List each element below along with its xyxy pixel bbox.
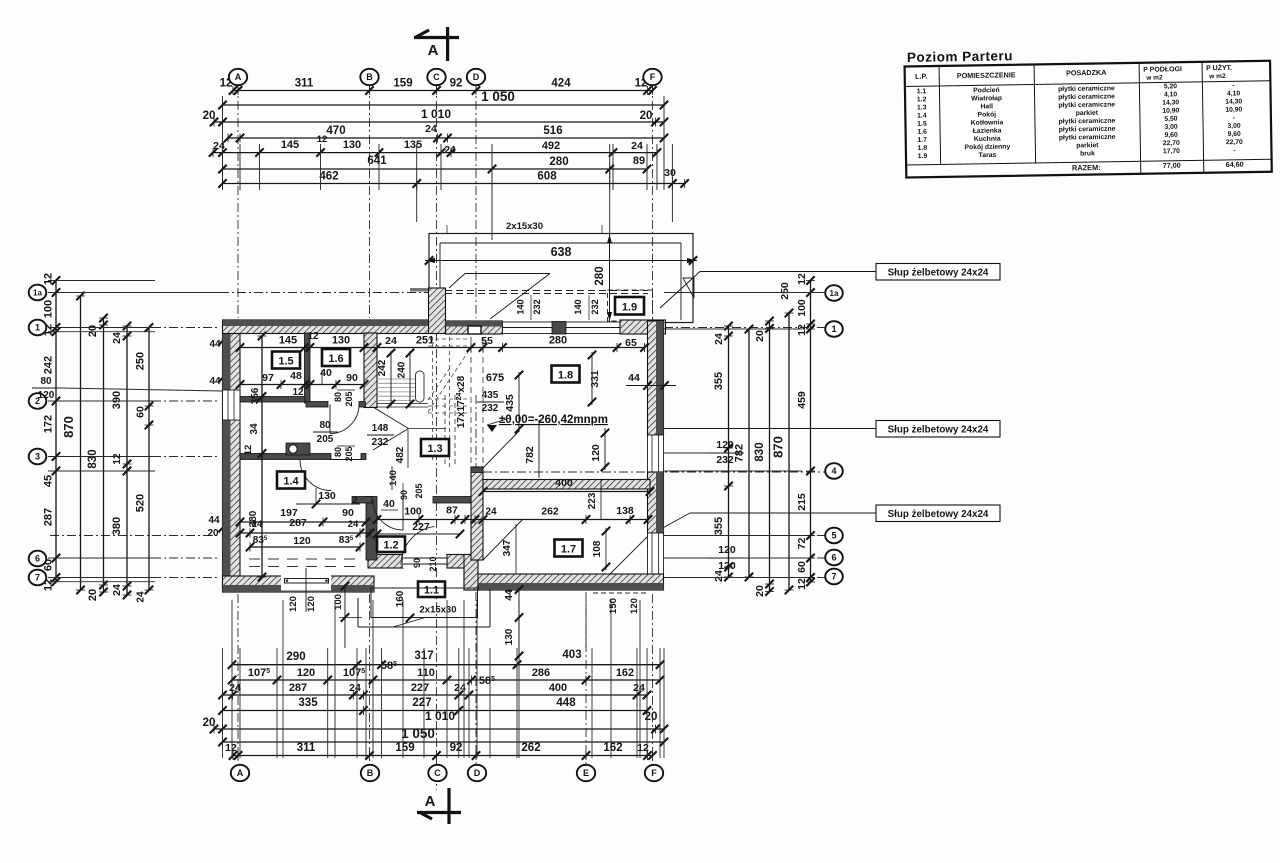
window mullion pier bbox=[552, 322, 566, 335]
svg-text:24: 24 bbox=[136, 591, 147, 603]
svg-text:24: 24 bbox=[633, 682, 645, 694]
svg-text:355: 355 bbox=[713, 517, 725, 535]
partition stub 1.6 bottom bbox=[306, 402, 328, 408]
svg-text:płytki ceramiczne: płytki ceramiczne bbox=[1059, 118, 1116, 126]
svg-text:335: 335 bbox=[298, 697, 318, 709]
svg-text:40: 40 bbox=[383, 498, 395, 510]
svg-text:A: A bbox=[237, 768, 244, 778]
svg-text:12: 12 bbox=[292, 387, 304, 398]
svg-text:110: 110 bbox=[417, 667, 435, 679]
callout: Slup zelbetowy 24x24 (top) bbox=[876, 264, 1000, 281]
svg-text:120: 120 bbox=[590, 444, 602, 462]
svg-text:C: C bbox=[433, 72, 440, 82]
exterior wall: top (middle) bbox=[446, 321, 503, 334]
svg-text:435: 435 bbox=[504, 394, 516, 412]
svg-text:60: 60 bbox=[135, 406, 147, 418]
svg-text:24: 24 bbox=[349, 682, 361, 694]
svg-text:92: 92 bbox=[450, 742, 463, 754]
svg-text:120: 120 bbox=[629, 598, 640, 614]
left dimension chains bbox=[55, 281, 57, 582]
svg-text:232: 232 bbox=[482, 403, 499, 414]
svg-text:675: 675 bbox=[486, 372, 504, 384]
svg-text:D: D bbox=[474, 768, 481, 778]
svg-text:płytki ceramiczne: płytki ceramiczne bbox=[1058, 93, 1115, 101]
svg-text:120: 120 bbox=[293, 535, 311, 547]
chimney bbox=[429, 288, 446, 334]
svg-text:1.1: 1.1 bbox=[424, 585, 439, 597]
svg-text:F: F bbox=[651, 768, 657, 778]
svg-text:POMIESZCZENIE: POMIESZCZENIE bbox=[957, 70, 1016, 80]
svg-text:72: 72 bbox=[796, 538, 808, 550]
svg-text:24: 24 bbox=[444, 145, 456, 156]
svg-text:608: 608 bbox=[537, 171, 557, 183]
opening V marks hall bbox=[373, 407, 409, 429]
svg-text:Taras: Taras bbox=[979, 152, 997, 159]
svg-text:1.8: 1.8 bbox=[918, 145, 928, 152]
svg-text:17,70: 17,70 bbox=[1163, 148, 1180, 155]
svg-text:20: 20 bbox=[645, 711, 658, 723]
svg-text:90: 90 bbox=[342, 507, 354, 519]
svg-text:65: 65 bbox=[625, 337, 637, 349]
svg-text:205: 205 bbox=[317, 434, 334, 445]
svg-text:24: 24 bbox=[111, 332, 123, 344]
terrace ramp diagonal bbox=[449, 274, 465, 289]
svg-text:4: 4 bbox=[831, 466, 836, 476]
svg-text:3,00: 3,00 bbox=[1227, 123, 1241, 130]
svg-text:34: 34 bbox=[249, 423, 260, 435]
svg-text:12: 12 bbox=[112, 453, 123, 465]
svg-text:520: 520 bbox=[135, 494, 147, 512]
level mark bbox=[487, 425, 497, 432]
door leaf into 1.8 bbox=[483, 431, 519, 468]
room label 1.3 bbox=[421, 439, 449, 456]
svg-text:17x1724x28: 17x1724x28 bbox=[456, 375, 467, 428]
section marker A (bottom) bbox=[447, 788, 450, 824]
boiler block bbox=[286, 443, 310, 455]
exterior wall: bottom right section bbox=[464, 574, 664, 590]
svg-text:400: 400 bbox=[555, 477, 573, 489]
svg-text:516: 516 bbox=[543, 125, 562, 137]
svg-text:14,30: 14,30 bbox=[1162, 99, 1179, 106]
svg-text:24: 24 bbox=[713, 333, 725, 345]
svg-text:Słup żelbetowy 24x24: Słup żelbetowy 24x24 bbox=[888, 509, 989, 520]
svg-text:6: 6 bbox=[35, 554, 40, 564]
exterior wall: right, segment 1 bbox=[648, 321, 664, 435]
right dimension chains bbox=[728, 326, 730, 577]
svg-text:80: 80 bbox=[319, 420, 331, 431]
svg-text:138: 138 bbox=[616, 505, 634, 517]
svg-text:1.6: 1.6 bbox=[328, 353, 343, 365]
svg-text:1.3: 1.3 bbox=[917, 104, 927, 111]
svg-text:64,60: 64,60 bbox=[1226, 160, 1244, 169]
svg-text:24: 24 bbox=[213, 140, 225, 152]
svg-text:30: 30 bbox=[664, 167, 676, 179]
svg-text:97: 97 bbox=[262, 372, 274, 384]
svg-text:20: 20 bbox=[87, 325, 99, 337]
svg-text:280: 280 bbox=[549, 156, 568, 168]
svg-text:20: 20 bbox=[754, 585, 766, 597]
svg-text:płytki ceramiczne: płytki ceramiczne bbox=[1058, 101, 1115, 109]
svg-text:120: 120 bbox=[297, 667, 315, 679]
svg-text:1.4: 1.4 bbox=[283, 476, 299, 488]
svg-text:250: 250 bbox=[779, 282, 791, 300]
top grid bubbles A B C D F bbox=[229, 69, 247, 85]
svg-text:20: 20 bbox=[207, 528, 219, 539]
svg-text:145: 145 bbox=[281, 139, 299, 151]
svg-text:9,60: 9,60 bbox=[1228, 131, 1242, 138]
terrace drain triangle bbox=[683, 278, 694, 298]
svg-text:403: 403 bbox=[562, 649, 581, 661]
svg-text:w m2: w m2 bbox=[1145, 74, 1163, 81]
svg-text:12: 12 bbox=[796, 273, 808, 285]
svg-text:262: 262 bbox=[521, 742, 540, 754]
svg-text:5,20: 5,20 bbox=[1164, 83, 1178, 90]
svg-text:-: - bbox=[1233, 147, 1235, 154]
svg-text:parkiet: parkiet bbox=[1076, 142, 1099, 149]
svg-text:20: 20 bbox=[203, 717, 216, 729]
svg-text:A: A bbox=[425, 793, 436, 810]
svg-text:120: 120 bbox=[288, 596, 299, 612]
room label 1.9 bbox=[608, 290, 653, 321]
svg-text:150: 150 bbox=[608, 598, 619, 614]
room label 1.4 bbox=[277, 472, 305, 489]
svg-text:22,70: 22,70 bbox=[1226, 139, 1243, 146]
svg-text:płytki ceramiczne: płytki ceramiczne bbox=[1059, 126, 1116, 134]
right wall window 120/232 bbox=[648, 435, 664, 472]
wall 1.8/1.7 bbox=[483, 480, 650, 490]
svg-text:RAZEM:: RAZEM: bbox=[1072, 163, 1101, 172]
svg-text:4,10: 4,10 bbox=[1227, 90, 1241, 97]
svg-text:120: 120 bbox=[716, 439, 734, 451]
svg-text:638: 638 bbox=[551, 245, 572, 259]
svg-text:108: 108 bbox=[592, 540, 603, 557]
svg-text:205: 205 bbox=[344, 391, 354, 406]
entry door opening bbox=[403, 555, 447, 569]
svg-text:262: 262 bbox=[541, 506, 559, 518]
svg-text:1.1: 1.1 bbox=[917, 88, 927, 95]
svg-text:1.7: 1.7 bbox=[561, 544, 576, 556]
room label 1.2 bbox=[377, 537, 405, 553]
svg-text:Kuchnia: Kuchnia bbox=[974, 136, 1001, 143]
svg-text:870: 870 bbox=[771, 436, 786, 458]
section marker A (top) bbox=[446, 27, 449, 61]
svg-text:3: 3 bbox=[35, 452, 40, 462]
grid axes dash-dot lines bbox=[237, 84, 239, 318]
svg-text:L.P.: L.P. bbox=[915, 72, 927, 81]
svg-text:1.2: 1.2 bbox=[383, 540, 398, 552]
svg-text:130: 130 bbox=[343, 139, 361, 151]
svg-text:87: 87 bbox=[446, 505, 458, 517]
svg-text:2x15x30: 2x15x30 bbox=[420, 605, 457, 616]
thin lines across stair opening bbox=[377, 403, 428, 405]
svg-text:240: 240 bbox=[397, 361, 408, 378]
svg-text:90: 90 bbox=[412, 558, 422, 568]
top dimension chains bbox=[233, 90, 653, 92]
right wall window 120/120 bbox=[648, 533, 664, 576]
svg-text:1.7: 1.7 bbox=[917, 137, 927, 144]
svg-text:14,30: 14,30 bbox=[1225, 98, 1242, 105]
svg-text:77,00: 77,00 bbox=[1163, 161, 1181, 170]
svg-text:12: 12 bbox=[796, 324, 808, 336]
dashed sill below porch/terrace right bbox=[593, 592, 648, 594]
svg-text:130: 130 bbox=[332, 335, 350, 347]
svg-text:Poziom Parteru: Poziom Parteru bbox=[907, 48, 1013, 65]
svg-text:1a: 1a bbox=[33, 288, 42, 297]
stairs upper flight dashed bbox=[428, 338, 470, 340]
svg-text:242: 242 bbox=[43, 356, 55, 374]
svg-text:120: 120 bbox=[718, 560, 736, 572]
svg-text:44: 44 bbox=[628, 372, 640, 384]
svg-text:1.5: 1.5 bbox=[917, 121, 927, 128]
svg-text:55: 55 bbox=[481, 335, 493, 347]
svg-text:24: 24 bbox=[111, 584, 123, 596]
bottom grid bubbles A B C D E F bbox=[231, 765, 249, 781]
svg-text:44: 44 bbox=[504, 589, 515, 601]
svg-text:24: 24 bbox=[385, 335, 397, 347]
svg-text:D: D bbox=[473, 72, 480, 82]
opening dashes above wall bbox=[470, 337, 472, 467]
svg-text:227: 227 bbox=[412, 521, 430, 533]
svg-text:24: 24 bbox=[348, 519, 359, 530]
svg-text:7: 7 bbox=[831, 572, 836, 582]
svg-text:1.5: 1.5 bbox=[278, 356, 293, 368]
svg-text:100: 100 bbox=[333, 594, 344, 610]
svg-text:w m2: w m2 bbox=[1208, 73, 1226, 80]
svg-text:6: 6 bbox=[831, 553, 836, 563]
svg-text:1 050: 1 050 bbox=[481, 89, 515, 104]
room label 1.6 bbox=[322, 349, 350, 366]
svg-text:870: 870 bbox=[61, 416, 76, 438]
svg-text:492: 492 bbox=[542, 140, 560, 152]
porch steps diagonal bbox=[393, 618, 425, 628]
svg-text:140: 140 bbox=[388, 470, 399, 486]
porch back wall right part bbox=[447, 555, 478, 569]
svg-text:280: 280 bbox=[594, 266, 606, 285]
svg-text:44: 44 bbox=[208, 515, 220, 526]
exterior wall: top (left section) bbox=[223, 320, 430, 334]
svg-text:80: 80 bbox=[40, 376, 52, 387]
room label 1.1 bbox=[418, 582, 445, 598]
svg-text:12: 12 bbox=[317, 134, 328, 145]
svg-text:B: B bbox=[367, 768, 374, 778]
svg-text:90: 90 bbox=[346, 372, 358, 384]
svg-text:Pokój dzienny: Pokój dzienny bbox=[964, 144, 1010, 152]
svg-text:100: 100 bbox=[404, 506, 422, 518]
exterior wall: right, segment 2 bbox=[648, 472, 664, 533]
svg-text:24: 24 bbox=[425, 123, 437, 135]
partition 1.5/1.6 bbox=[305, 333, 311, 403]
svg-text:424: 424 bbox=[551, 78, 571, 90]
svg-text:1 010: 1 010 bbox=[421, 107, 451, 121]
svg-text:A: A bbox=[428, 42, 439, 59]
entry door arc bbox=[401, 526, 435, 565]
dim 280 terrace vertical bbox=[609, 234, 611, 323]
svg-text:227: 227 bbox=[411, 682, 429, 694]
interior 1.5/1.6 dim line bbox=[240, 384, 364, 386]
exterior wall: bottom left section bbox=[223, 576, 375, 592]
svg-text:24: 24 bbox=[485, 507, 497, 518]
room schedule table bbox=[904, 44, 1271, 177]
svg-text:48: 48 bbox=[290, 370, 302, 382]
callout: Slup zelbetowy 24x24 (bottom) bbox=[876, 505, 1000, 522]
svg-text:E: E bbox=[583, 768, 589, 778]
svg-text:205: 205 bbox=[414, 483, 424, 498]
svg-text:162: 162 bbox=[616, 667, 634, 679]
corner pillar F/1 bbox=[620, 320, 666, 334]
svg-text:±0,00=-260,42mnpm: ±0,00=-260,42mnpm bbox=[499, 414, 608, 426]
svg-text:148: 148 bbox=[372, 423, 389, 434]
svg-text:Słup żelbetowy 24x24: Słup żelbetowy 24x24 bbox=[888, 268, 989, 279]
svg-text:45: 45 bbox=[43, 475, 55, 487]
svg-text:20: 20 bbox=[203, 110, 216, 122]
svg-text:12: 12 bbox=[225, 742, 237, 754]
svg-text:1.8: 1.8 bbox=[558, 370, 573, 382]
svg-text:1.2: 1.2 bbox=[917, 96, 927, 103]
svg-text:Hall: Hall bbox=[980, 103, 993, 110]
svg-text:355: 355 bbox=[713, 372, 725, 390]
svg-text:P UŻYT.: P UŻYT. bbox=[1206, 64, 1232, 72]
svg-text:641: 641 bbox=[367, 155, 387, 167]
svg-text:290: 290 bbox=[286, 651, 305, 663]
stair dim lines 242/240 bbox=[390, 351, 392, 406]
svg-text:120: 120 bbox=[38, 390, 55, 401]
svg-text:Wiatrołap: Wiatrołap bbox=[971, 95, 1002, 102]
svg-text:232: 232 bbox=[372, 437, 389, 448]
wall hall/1.8-1.7 bbox=[471, 467, 483, 560]
svg-text:130: 130 bbox=[504, 628, 515, 645]
svg-text:20: 20 bbox=[87, 589, 99, 601]
svg-text:130: 130 bbox=[318, 490, 336, 502]
svg-text:90: 90 bbox=[399, 490, 409, 500]
door arc 1.2-hall bbox=[373, 500, 403, 530]
left grid bubbles bbox=[29, 285, 47, 301]
stairs lower flight treads bbox=[376, 378, 424, 380]
room label 1.8 bbox=[552, 366, 580, 383]
svg-text:830: 830 bbox=[754, 442, 766, 461]
svg-text:1a: 1a bbox=[830, 289, 839, 298]
terrace dashed floor edge bbox=[445, 290, 648, 292]
svg-text:120: 120 bbox=[306, 596, 317, 612]
svg-text:380: 380 bbox=[111, 517, 123, 535]
svg-text:470: 470 bbox=[326, 125, 345, 137]
svg-text:347: 347 bbox=[502, 539, 513, 556]
svg-text:7: 7 bbox=[35, 573, 40, 583]
svg-text:1.4: 1.4 bbox=[917, 112, 927, 119]
svg-text:płytki ceramiczne: płytki ceramiczne bbox=[1058, 85, 1115, 93]
svg-text:100: 100 bbox=[796, 299, 808, 317]
svg-text:1.9: 1.9 bbox=[918, 153, 928, 160]
room label 1.7 bbox=[555, 540, 583, 557]
svg-text:331: 331 bbox=[589, 370, 601, 388]
dim line y=519 (100/87/24/262/138) bbox=[377, 519, 648, 521]
svg-text:1.6: 1.6 bbox=[917, 129, 927, 136]
svg-text:Kotłownia: Kotłownia bbox=[971, 119, 1004, 127]
svg-text:205: 205 bbox=[344, 446, 354, 461]
svg-text:215: 215 bbox=[796, 493, 808, 511]
svg-text:159: 159 bbox=[395, 742, 414, 754]
svg-text:435: 435 bbox=[482, 390, 499, 401]
svg-text:145: 145 bbox=[279, 335, 297, 347]
svg-text:162: 162 bbox=[603, 742, 622, 754]
svg-text:459: 459 bbox=[796, 391, 808, 409]
svg-text:830: 830 bbox=[87, 449, 99, 468]
svg-text:92: 92 bbox=[450, 78, 463, 90]
svg-text:782: 782 bbox=[524, 446, 536, 464]
svg-text:140: 140 bbox=[516, 299, 526, 314]
right grid bubbles bbox=[825, 285, 843, 301]
svg-text:24: 24 bbox=[631, 140, 643, 152]
svg-text:89: 89 bbox=[633, 155, 645, 167]
top wall window zone (1.8) bbox=[503, 322, 621, 334]
svg-text:232: 232 bbox=[532, 299, 542, 314]
svg-text:100: 100 bbox=[43, 300, 55, 318]
terrace left wall stub bbox=[410, 288, 429, 292]
svg-text:20: 20 bbox=[754, 330, 766, 342]
svg-text:1.9: 1.9 bbox=[622, 302, 637, 314]
1.7 corner diagonal bbox=[610, 536, 648, 574]
svg-text:311: 311 bbox=[295, 78, 314, 90]
svg-text:227: 227 bbox=[412, 697, 431, 709]
svg-text:242: 242 bbox=[377, 359, 388, 376]
svg-text:P PODŁOGI: P PODŁOGI bbox=[1143, 66, 1182, 74]
left wall window bbox=[223, 390, 241, 420]
svg-text:120: 120 bbox=[718, 544, 736, 556]
callout: Slup zelbetowy 24x24 (middle) bbox=[876, 421, 1000, 438]
svg-text:bruk: bruk bbox=[1080, 150, 1095, 157]
exterior wall: left bbox=[223, 320, 241, 592]
svg-text:232: 232 bbox=[590, 299, 600, 314]
svg-text:Pokój: Pokój bbox=[978, 111, 997, 118]
svg-text:140: 140 bbox=[573, 299, 583, 314]
svg-text:Słup żelbetowy 24x24: Słup żelbetowy 24x24 bbox=[888, 425, 989, 436]
porch back wall left part bbox=[368, 555, 403, 569]
svg-text:-: - bbox=[1232, 82, 1234, 89]
svg-text:Podcień: Podcień bbox=[973, 87, 1000, 94]
svg-text:22,70: 22,70 bbox=[1163, 140, 1180, 147]
stair handrail bbox=[416, 371, 425, 402]
room label 1.5 bbox=[272, 352, 300, 369]
svg-text:1 010: 1 010 bbox=[425, 709, 455, 723]
door arc 1.4 bbox=[300, 460, 331, 491]
svg-text:287: 287 bbox=[289, 517, 307, 529]
svg-text:płytki ceramiczne: płytki ceramiczne bbox=[1059, 134, 1116, 142]
svg-text:parkiet: parkiet bbox=[1076, 110, 1099, 117]
svg-text:287: 287 bbox=[289, 682, 307, 694]
svg-text:60: 60 bbox=[796, 561, 808, 573]
svg-text:462: 462 bbox=[319, 171, 338, 183]
svg-text:448: 448 bbox=[556, 697, 576, 709]
svg-text:210: 210 bbox=[428, 556, 438, 571]
svg-text:A: A bbox=[235, 72, 242, 82]
partition 1.4 top bbox=[240, 454, 331, 460]
svg-text:12: 12 bbox=[796, 578, 808, 590]
svg-text:20: 20 bbox=[640, 110, 653, 122]
dim 638 terrace bbox=[425, 260, 697, 262]
bottom dimension chains bbox=[232, 664, 660, 666]
svg-text:251: 251 bbox=[416, 335, 434, 347]
svg-text:1: 1 bbox=[831, 324, 836, 334]
porch right connector wall bbox=[464, 555, 478, 591]
svg-text:80: 80 bbox=[333, 392, 343, 402]
svg-text:5,50: 5,50 bbox=[1164, 116, 1178, 123]
svg-text:311: 311 bbox=[297, 742, 316, 754]
partition hall/1.2 bbox=[352, 497, 372, 504]
svg-text:287: 287 bbox=[43, 508, 55, 526]
interior top dim line (145/12/130/24/251/55/280/65) bbox=[240, 347, 645, 349]
svg-text:12: 12 bbox=[243, 445, 254, 456]
svg-text:C: C bbox=[434, 768, 441, 778]
svg-text:F: F bbox=[650, 72, 656, 82]
